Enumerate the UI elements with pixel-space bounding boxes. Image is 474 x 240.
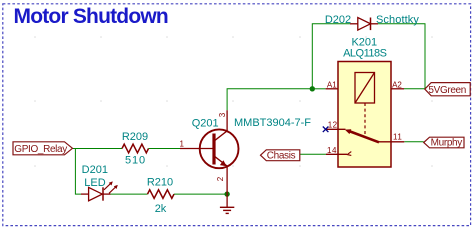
relay coil [355, 73, 375, 104]
relay pin 11 [379, 141, 404, 143]
junction collector node [310, 86, 315, 91]
svg-text:2: 2 [216, 176, 225, 181]
global label Murphy [424, 137, 464, 149]
svg-text:Q201: Q201 [192, 117, 219, 129]
wire R210 to emitter junction [174, 193, 227, 195]
svg-text:5VGreen: 5VGreen [428, 85, 466, 96]
wire Chasis label to pin 14 [300, 153, 326, 155]
wire junction to relay A1 [312, 88, 325, 90]
transistor Q201 [180, 110, 312, 194]
resistor R209 [122, 131, 149, 167]
svg-text:R210: R210 [147, 177, 173, 189]
relay pin 12 contact [326, 128, 346, 130]
svg-text:A1: A1 [327, 80, 337, 89]
relay pin A2 [391, 88, 404, 90]
svg-text:Motor Shutdown: Motor Shutdown [14, 5, 168, 28]
wire junction up to D202 anode [312, 24, 350, 89]
global label Chasis [261, 150, 300, 162]
relay coil-to-contact dashed link [364, 103, 366, 136]
wire D202 cathode down to 5VGreen net [378, 24, 425, 89]
junction emitter node [224, 191, 229, 196]
svg-text:Murphy: Murphy [431, 138, 463, 149]
relay K201 ALQ118S [326, 37, 405, 167]
no-connect X on pin 12 [323, 127, 329, 133]
svg-text:2k: 2k [155, 203, 167, 215]
wire relay A2 to 5VGreen label [404, 88, 425, 90]
wire GPIO_Relay to R209 [73, 148, 123, 150]
svg-text:D201: D201 [82, 164, 108, 176]
svg-text:510: 510 [125, 155, 146, 167]
wire LED cathode to R210 [111, 193, 148, 195]
wire branch down to LED [75, 149, 81, 195]
wire pin 11 to Murphy label [404, 141, 423, 143]
wire R209 to Q201 base [149, 148, 181, 150]
ground [220, 194, 234, 213]
svg-text:1: 1 [180, 139, 185, 148]
svg-text:MMBT3904-7-F: MMBT3904-7-F [234, 117, 311, 129]
svg-text:11: 11 [393, 133, 402, 142]
svg-text:3: 3 [218, 112, 227, 117]
resistor R210 [147, 177, 174, 216]
svg-text:ALQ118S: ALQ118S [343, 47, 387, 59]
svg-text:LED: LED [84, 177, 105, 189]
relay switch arm [349, 131, 379, 142]
svg-text:D202: D202 [325, 14, 351, 26]
svg-text:GPIO_Relay: GPIO_Relay [14, 144, 67, 155]
svg-text:Schottky: Schottky [376, 14, 419, 26]
wire collector up and right to junction [227, 89, 312, 110]
svg-text:12: 12 [328, 121, 338, 130]
svg-text:A2: A2 [392, 81, 402, 90]
diode D202 Schottky [325, 14, 420, 30]
LED D201 [81, 164, 118, 201]
svg-text:Chasis: Chasis [267, 151, 296, 162]
svg-text:R209: R209 [122, 131, 148, 143]
global label 5VGreen [425, 83, 470, 96]
svg-text:14: 14 [327, 146, 337, 155]
relay pin 14 contact [326, 153, 347, 155]
global label GPIO_Relay [13, 142, 73, 155]
relay pin A1 [326, 88, 338, 90]
